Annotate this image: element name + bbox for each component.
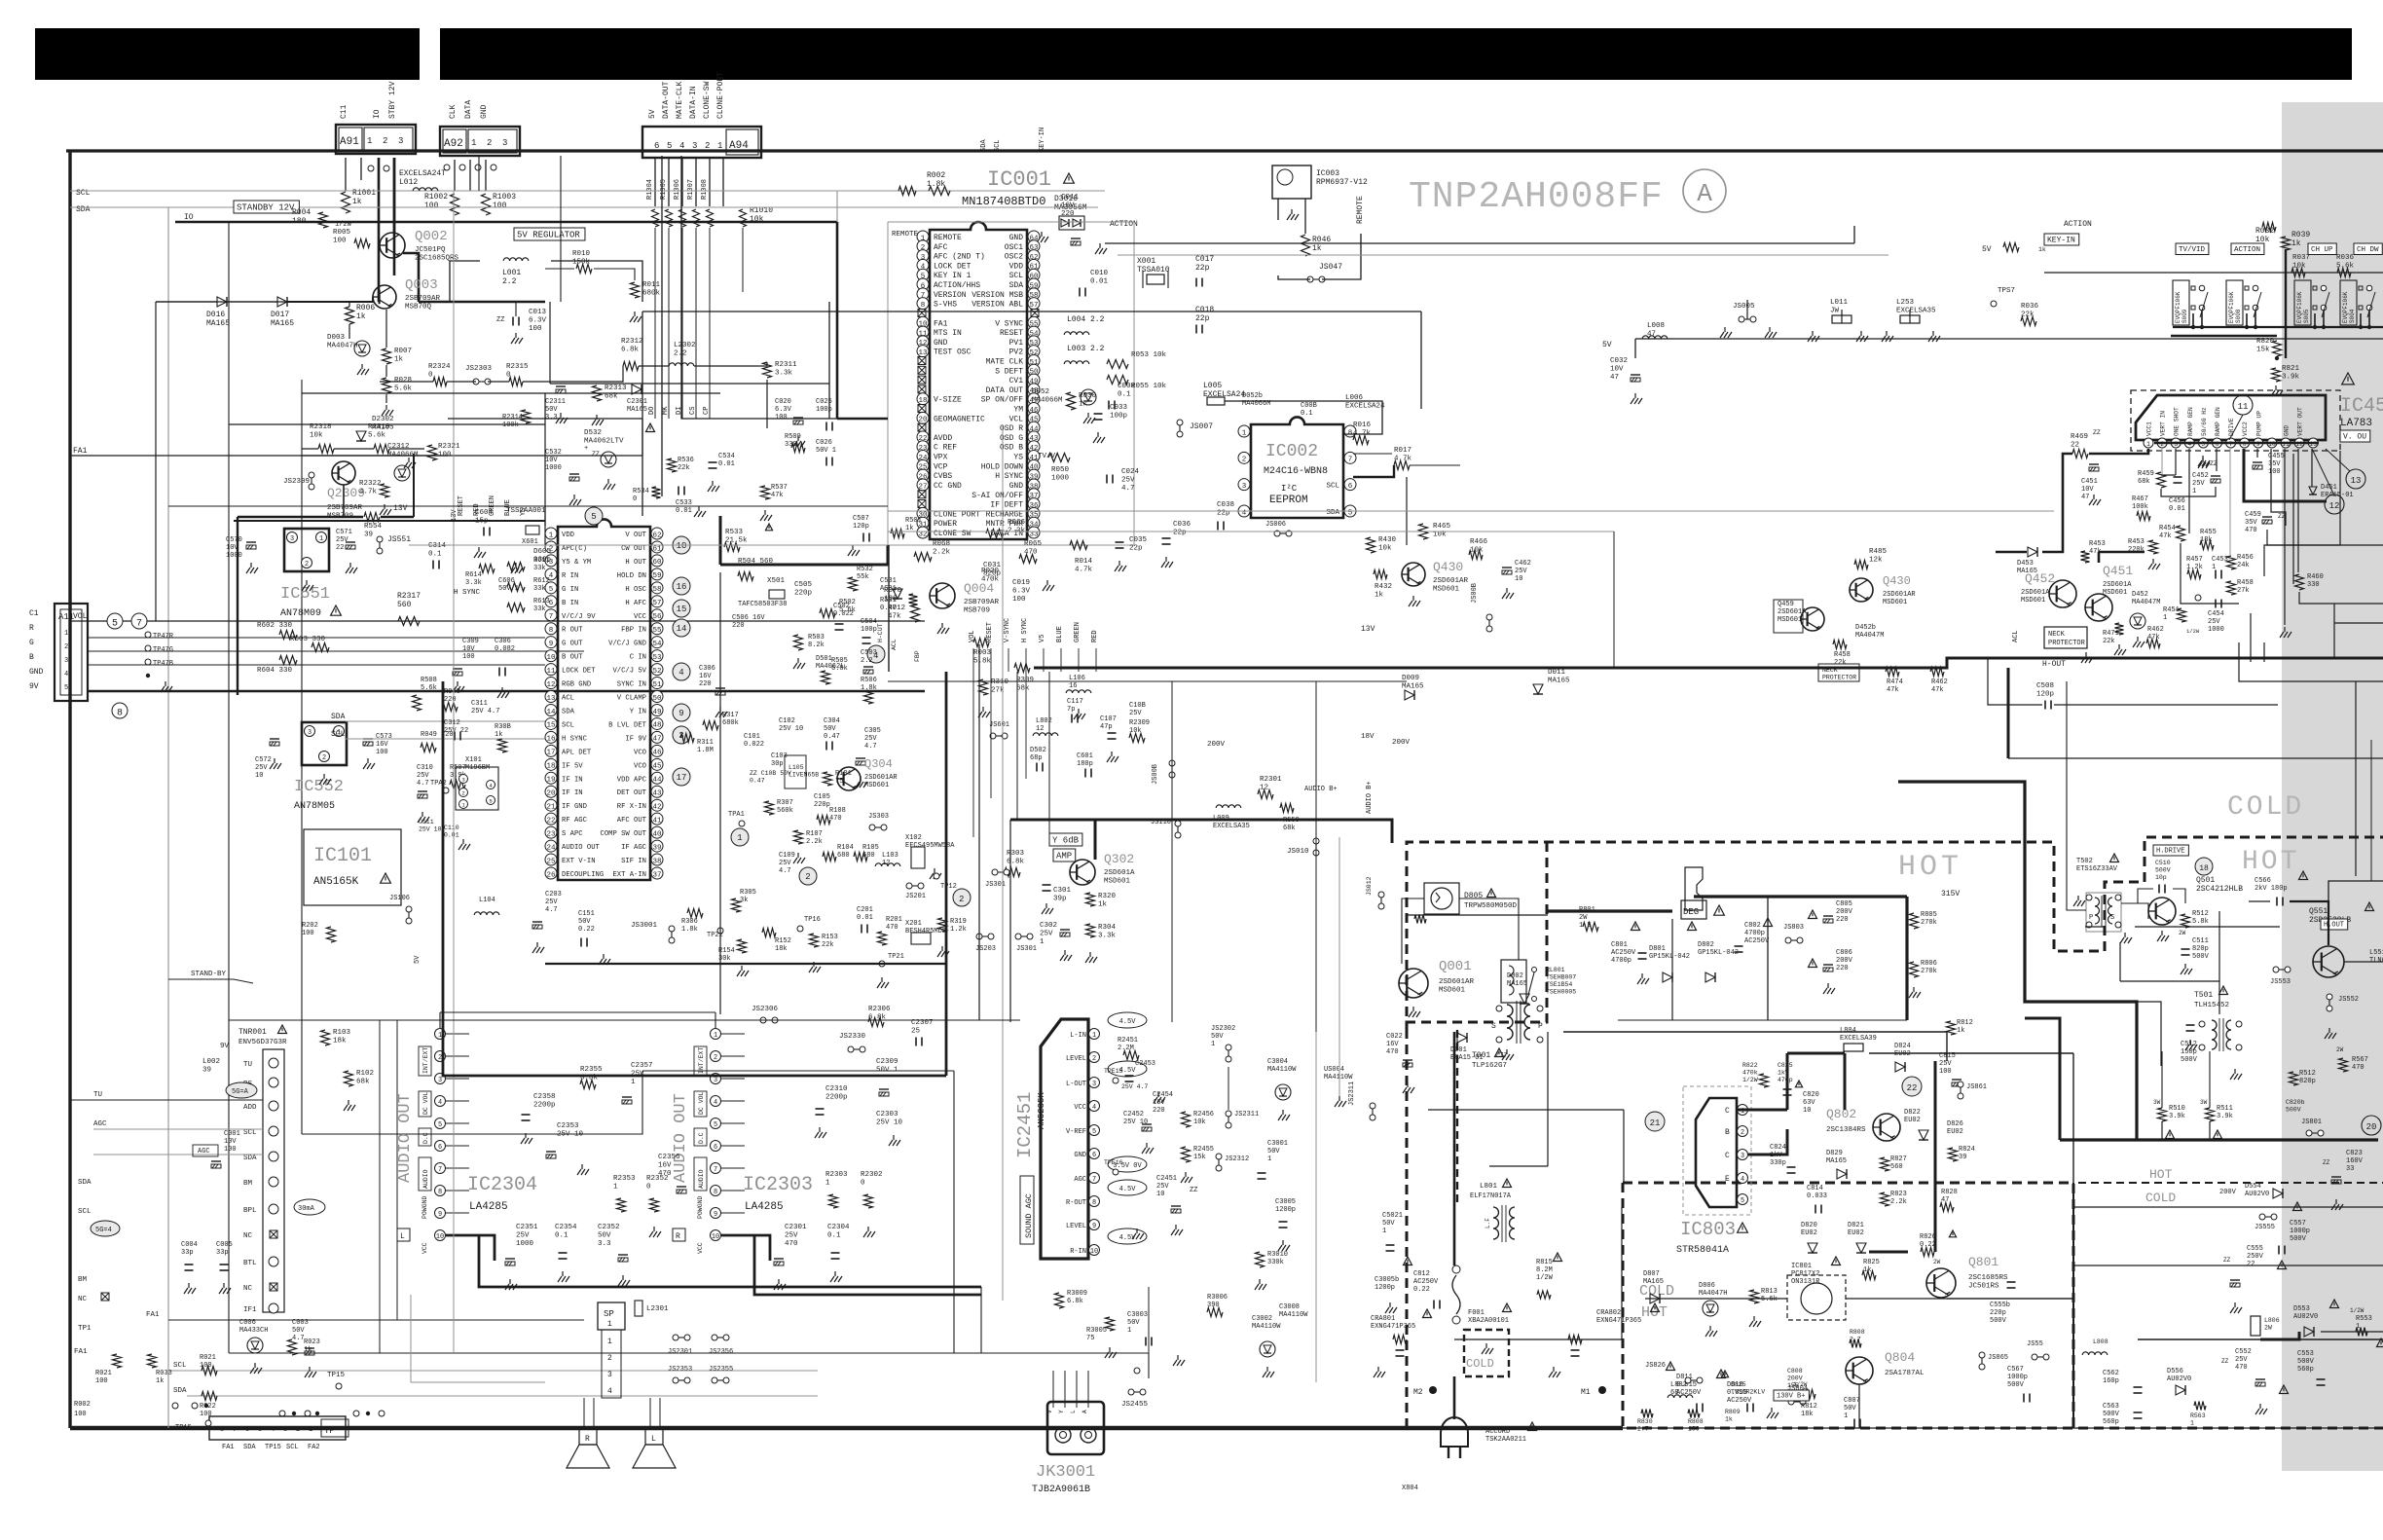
svg-text:EVQPF106K: EVQPF106K — [2296, 291, 2303, 323]
crystal X501 — [769, 590, 785, 599]
net label 200V — [1207, 741, 1226, 749]
dashed boundary primary left — [1407, 842, 1547, 1428]
pin label 46 IC101 jungle — [634, 749, 646, 756]
svg-text:1: 1 — [613, 1184, 618, 1192]
pin label 23 IC001 — [934, 444, 957, 453]
value R153 — [822, 934, 838, 949]
value R532 — [857, 566, 873, 581]
ref Q430 — [1433, 560, 1463, 574]
svg-text:BPL: BPL — [243, 1207, 257, 1215]
wire sda t — [93, 1154, 263, 1155]
wire — [2292, 454, 2294, 584]
svg-text:COLD: COLD — [2227, 792, 2304, 823]
svg-text:C604: C604 — [475, 509, 494, 517]
ground — [937, 623, 949, 634]
svg-text:100: 100 — [2268, 468, 2281, 476]
pin label 20 IC001 — [934, 415, 985, 423]
value Q430 — [1433, 577, 1469, 594]
svg-text:R2315: R2315 — [506, 363, 529, 371]
svg-text:AVDD: AVDD — [934, 434, 952, 443]
svg-text:2.2: 2.2 — [502, 277, 517, 286]
svg-text:5V: 5V — [648, 109, 657, 119]
pin 1 IC552 — [334, 726, 345, 738]
svg-text:62: 62 — [652, 532, 661, 539]
wire — [411, 1381, 545, 1383]
svg-text:TPS7: TPS7 — [1998, 287, 2015, 295]
pin 24 IC001 — [917, 451, 929, 462]
pin 38 IC101 jungle — [651, 854, 663, 865]
svg-text:R465: R465 — [1433, 523, 1451, 531]
svg-text:C017: C017 — [1195, 255, 1214, 264]
svg-text:JS201: JS201 — [905, 893, 926, 900]
value R537 — [771, 484, 788, 499]
pin label 4 IC101 jungle — [562, 572, 578, 580]
svg-text:MSD601: MSD601 — [1104, 878, 1131, 886]
pin label 22 IC101 jungle — [562, 817, 588, 825]
pin label SCL TP — [286, 1444, 299, 1451]
wire opto in — [1645, 1298, 1787, 1300]
wire 13V reg — [234, 520, 545, 522]
svg-text:P: P — [1538, 1022, 1543, 1031]
svg-text:TPE16: TPE16 — [1104, 1159, 1123, 1166]
svg-text:50: 50 — [652, 695, 662, 703]
svg-text:SCL: SCL — [243, 1129, 257, 1137]
pin 4 IC101 jungle — [545, 568, 557, 580]
svg-text:AFC OUT: AFC OUT — [617, 817, 647, 825]
value R003 — [973, 649, 992, 666]
value JS012 — [1366, 876, 1373, 896]
svg-text:R612: R612 — [533, 577, 550, 585]
svg-text:S DEFT: S DEFT — [995, 367, 1023, 376]
pin 41 IC001 — [1028, 451, 1040, 462]
switch S008 — [2226, 280, 2261, 327]
svg-text:C806: C806 — [1836, 949, 1852, 957]
net label B — [29, 653, 34, 662]
svg-text:V: V — [1046, 1410, 1053, 1413]
svg-text:15k: 15k — [2256, 347, 2270, 354]
value R485 — [1869, 548, 1888, 565]
value IC101 — [313, 876, 359, 888]
resistor R2353 — [617, 1198, 626, 1212]
svg-text:1: 1 — [471, 138, 476, 148]
value T001 — [1472, 1051, 1490, 1060]
pin label 50 IC101 jungle — [617, 695, 646, 703]
svg-text:DC VOL: DC VOL — [422, 1091, 429, 1115]
svg-text:NECK: NECK — [2048, 631, 2066, 639]
svg-text:C504: C504 — [861, 618, 877, 626]
svg-text:D016: D016 — [206, 311, 225, 319]
jumper JS861 — [1958, 1082, 1963, 1099]
svg-text:TP47R: TP47R — [153, 633, 174, 641]
svg-text:50V: 50V — [824, 725, 836, 733]
svg-text:AN5165K: AN5165K — [313, 876, 359, 888]
ref IC2451 — [1014, 1092, 1036, 1158]
ground — [497, 687, 509, 698]
wire — [1613, 532, 1615, 668]
svg-text:R533: R533 — [725, 529, 744, 536]
svg-text:R2355: R2355 — [580, 1066, 603, 1074]
value R603 — [290, 636, 326, 643]
svg-text:R103: R103 — [333, 1029, 351, 1037]
capacitor C312 — [455, 732, 460, 741]
svg-text:1: 1 — [309, 1426, 312, 1434]
svg-text:SDA: SDA — [243, 1444, 256, 1451]
svg-text:R2314: R2314 — [502, 414, 523, 422]
svg-text:5G=A: 5G=A — [232, 1088, 249, 1096]
pin 45 IC001 — [1028, 412, 1040, 423]
svg-text:D821: D821 — [1848, 1222, 1864, 1229]
pin label 46 IC001 — [1013, 406, 1023, 415]
svg-text:HOT: HOT — [1898, 851, 1962, 884]
value R30B — [495, 723, 511, 739]
jumper JS2353 — [673, 1377, 690, 1383]
value R808b — [1688, 1418, 1704, 1433]
svg-text:0.01: 0.01 — [676, 507, 692, 515]
value JS801 — [2301, 1118, 2322, 1126]
svg-text:180: 180 — [292, 217, 307, 226]
svg-text:0.01: 0.01 — [857, 914, 873, 922]
svg-text:IC803: IC803 — [1680, 1219, 1736, 1240]
wire ic001 drop — [990, 648, 992, 672]
svg-text:2.2M: 2.2M — [1118, 1045, 1134, 1052]
svg-text:C532: C532 — [545, 449, 562, 457]
svg-text:D553: D553 — [2293, 1305, 2310, 1313]
wire Y signal thick — [1010, 820, 1095, 860]
value R006 — [356, 304, 375, 321]
svg-text:EXNG471P365: EXNG471P365 — [1371, 1323, 1415, 1331]
pin label NC TNR001 — [243, 1285, 253, 1293]
pin label 23 IC101 jungle — [562, 830, 583, 838]
resistor R306 — [687, 909, 703, 918]
resistor R822 — [1760, 1074, 1769, 1087]
svg-text:220p: 220p — [1990, 1309, 2006, 1317]
capacitor C459 — [2262, 517, 2272, 524]
svg-text:D605: D605 — [533, 548, 552, 556]
svg-text:L808: L808 — [2093, 1338, 2108, 1345]
pin 58 IC101 jungle — [651, 582, 663, 594]
svg-text:R806: R806 — [1921, 960, 1937, 968]
ground — [2331, 1199, 2343, 1210]
svg-text:3: 3 — [692, 141, 697, 151]
label M1 — [1581, 1388, 1591, 1397]
diode D009 — [1405, 690, 1414, 700]
resistor CRA801 — [1393, 1336, 1407, 1344]
ground — [556, 413, 568, 423]
svg-text:ON3131R: ON3131R — [1791, 1278, 1820, 1286]
value C005 — [216, 1241, 233, 1257]
resistor R2321 — [428, 445, 437, 460]
pin 42 IC101 jungle — [651, 799, 663, 811]
wire pin 8 IC2304 — [446, 1190, 469, 1192]
svg-text:120p: 120p — [2036, 691, 2054, 699]
value R458b — [1834, 651, 1851, 667]
svg-text:1: 1 — [1382, 1228, 1386, 1235]
wire — [2209, 1051, 2211, 1108]
wire vertical 1006 — [978, 644, 980, 1020]
svg-text:IF AGC: IF AGC — [621, 844, 647, 852]
svg-text:200V: 200V — [1836, 957, 1853, 965]
net label FA1 c — [74, 1348, 88, 1356]
value R053 — [1131, 351, 1167, 359]
label P T502 — [2089, 914, 2093, 922]
svg-text:0.1: 0.1 — [827, 1232, 841, 1240]
pin 7 IC45x — [2226, 438, 2236, 448]
wire — [1428, 1109, 1624, 1111]
value D807 — [1643, 1270, 1664, 1286]
svg-text:18: 18 — [2199, 864, 2209, 873]
pin label 13 IC101 jungle — [562, 695, 574, 703]
svg-text:10V: 10V — [545, 457, 558, 464]
svg-text:R462: R462 — [2147, 626, 2164, 634]
net label NC — [78, 1296, 88, 1303]
pin label 2 IC001 — [934, 243, 948, 252]
svg-text:R1008: R1008 — [701, 179, 709, 200]
wire — [1228, 1067, 1229, 1110]
wire — [551, 261, 642, 302]
svg-text:C3005b: C3005b — [1375, 1276, 1399, 1284]
ground — [618, 1275, 630, 1286]
net label R002 — [74, 1401, 91, 1409]
pin label SDA TNR001 — [243, 1155, 257, 1162]
wire t502 feed — [2067, 681, 2086, 910]
relay RL801 — [1501, 960, 1537, 1003]
svg-text:R002: R002 — [927, 171, 945, 180]
svg-text:ACTION: ACTION — [2234, 246, 2260, 254]
ground — [505, 1279, 517, 1290]
svg-text:BLUE: BLUE — [1056, 626, 1064, 642]
jumper JS110 — [1175, 821, 1181, 838]
wire pin 9 IC2304 — [446, 1212, 469, 1214]
capacitor C001 — [211, 1161, 221, 1168]
transistor Q451 — [2085, 594, 2112, 621]
capacitor C452i — [2174, 477, 2182, 483]
capacitor C502 — [835, 624, 844, 630]
value R202 — [302, 922, 318, 937]
switch S004 — [2340, 280, 2375, 327]
frame left border — [68, 151, 71, 1428]
svg-text:IF GND: IF GND — [562, 803, 587, 811]
svg-text:4: 4 — [1242, 509, 1247, 517]
svg-text:8: 8 — [220, 1426, 224, 1434]
svg-text:50V: 50V — [1267, 1148, 1280, 1155]
pin label 48 IC101 jungle — [608, 721, 647, 729]
resistor R036t — [2021, 317, 2036, 326]
pin label 12 IC101 jungle — [562, 681, 591, 689]
capacitor C511 — [2181, 949, 2190, 955]
value C573 — [376, 733, 392, 756]
value C003 — [292, 1319, 309, 1342]
label Y 6dB AMP — [1049, 833, 1082, 846]
svg-text:10: 10 — [1803, 1107, 1811, 1115]
svg-text:25V 4.7: 25V 4.7 — [471, 708, 499, 715]
value R459 — [2138, 470, 2154, 486]
svg-text:VCC1: VCC1 — [2146, 422, 2153, 436]
value R3006 — [1207, 1294, 1228, 1309]
svg-text:2.2k: 2.2k — [1890, 1198, 1907, 1206]
capacitor C2453 — [1125, 1076, 1134, 1082]
svg-text:L804: L804 — [1840, 1027, 1856, 1035]
svg-text:MA165: MA165 — [271, 319, 294, 328]
value T501 — [2194, 991, 2213, 1000]
svg-text:C2310: C2310 — [825, 1085, 848, 1093]
capacitor C010 — [1080, 288, 1085, 297]
svg-text:JS601: JS601 — [989, 721, 1009, 729]
value R559 — [1283, 817, 1300, 832]
resistor R805 — [1910, 913, 1919, 929]
svg-text:IO: IO — [373, 109, 382, 119]
wire A94 drop DI — [681, 228, 683, 419]
ic IC002 body — [1251, 417, 1343, 518]
ground — [344, 1100, 355, 1111]
value R453b — [2089, 540, 2106, 556]
svg-text:2: 2 — [1092, 1055, 1096, 1063]
wire — [715, 1012, 716, 1028]
wire 160v rail — [1563, 1031, 1947, 1033]
wire pin 1 IC2304 — [446, 1033, 469, 1035]
value R2315 — [506, 363, 529, 380]
svg-text:IC2303: IC2303 — [743, 1174, 813, 1196]
svg-text:EXCELSA35: EXCELSA35 — [1896, 308, 1936, 315]
pin 3 IC002 — [1238, 479, 1250, 491]
svg-text:R458: R458 — [1834, 651, 1851, 659]
capacitor C306 — [499, 668, 505, 677]
svg-text:A92: A92 — [444, 138, 463, 150]
ground — [246, 563, 258, 573]
svg-text:1k: 1k — [1098, 901, 1108, 909]
svg-text:16: 16 — [1069, 682, 1077, 690]
value T502 — [2076, 858, 2118, 873]
capacitor C025 — [826, 422, 832, 431]
dashed boundary secondary top — [1623, 1183, 2073, 1428]
svg-text:MA165: MA165 — [627, 406, 647, 414]
resistor R469 — [2072, 450, 2088, 458]
svg-text:1: 1 — [2146, 441, 2150, 448]
value R3010 — [1267, 1251, 1288, 1266]
value C2303 — [876, 1111, 903, 1127]
value C459 — [2245, 511, 2261, 534]
value JS2353 — [668, 1366, 692, 1374]
pin 53 IC101 jungle — [651, 650, 663, 662]
svg-text:X101: X101 — [465, 756, 482, 764]
ground — [599, 954, 610, 965]
svg-text:39: 39 — [202, 1067, 211, 1075]
svg-text:12: 12 — [1260, 785, 1268, 792]
resistor R108 — [817, 816, 830, 825]
svg-text:0.22: 0.22 — [578, 926, 595, 934]
svg-text:SCL: SCL — [331, 730, 346, 739]
svg-text:H SYNC: H SYNC — [995, 472, 1023, 481]
resistor R046 — [1301, 235, 1310, 256]
svg-text:4.7: 4.7 — [864, 743, 877, 751]
svg-text:C553: C553 — [2297, 1350, 2314, 1358]
svg-text:10k: 10k — [2292, 263, 2306, 271]
svg-text:STAND-BY: STAND-BY — [191, 971, 227, 978]
ground — [774, 1279, 786, 1290]
svg-text:OSD R: OSD R — [1000, 424, 1023, 433]
value D556 — [2167, 1368, 2191, 1383]
wire 13v rail — [2008, 757, 2383, 759]
svg-text:L005: L005 — [1203, 382, 1222, 390]
svg-text:R033: R033 — [156, 1370, 172, 1377]
label TPE15 — [1104, 1068, 1123, 1075]
svg-text:Y IN: Y IN — [630, 708, 646, 715]
resistor R1007 — [693, 209, 700, 227]
svg-text:JS861: JS861 — [1966, 1083, 1987, 1091]
wire — [2120, 980, 2219, 982]
capacitor C453 — [2216, 570, 2221, 579]
wire thick to H-OUT — [1363, 658, 1988, 668]
ground — [604, 479, 615, 490]
svg-text:25V 10: 25V 10 — [1123, 1118, 1148, 1126]
value R105 — [862, 844, 879, 860]
svg-text:47k: 47k — [771, 492, 784, 499]
svg-text:R007: R007 — [394, 348, 412, 355]
svg-text:R014: R014 — [1075, 558, 1093, 566]
net label AUDIO B+ — [1366, 781, 1374, 814]
wire pin 7 IC2304 — [446, 1167, 469, 1169]
label TP22 — [707, 932, 723, 939]
pin 63 IC001 — [1028, 240, 1040, 252]
pin label 1 IC001 — [934, 234, 962, 242]
resistor R554x — [2194, 1402, 2206, 1411]
value R826 — [1920, 1233, 1936, 1249]
value R070 — [884, 587, 902, 604]
inductor L806 — [2251, 1316, 2260, 1336]
value IC45x — [2340, 418, 2372, 429]
svg-text:C572: C572 — [255, 756, 272, 764]
pin 6 IC2451 — [1089, 1149, 1100, 1160]
svg-text:JS3001: JS3001 — [631, 922, 658, 930]
svg-text:R471: R471 — [2103, 630, 2119, 638]
svg-text:6: 6 — [1348, 483, 1353, 491]
svg-text:C013: C013 — [529, 309, 547, 316]
value C801 — [1611, 941, 1636, 965]
svg-text:0: 0 — [861, 1180, 865, 1188]
ground — [184, 1283, 196, 1294]
ground — [357, 364, 369, 375]
svg-text:L004 2.2: L004 2.2 — [1067, 315, 1105, 324]
value R505 — [831, 657, 848, 673]
svg-text:250V: 250V — [2247, 1253, 2264, 1261]
wire — [722, 158, 724, 206]
ground — [1093, 432, 1105, 443]
svg-text:MA4062LTV: MA4062LTV — [584, 438, 624, 446]
svg-text:500V: 500V — [2286, 1107, 2301, 1114]
callout 5G=A — [226, 1082, 257, 1098]
svg-text:0.01: 0.01 — [718, 460, 735, 468]
capacitor C2307 — [916, 1038, 922, 1046]
svg-text:MSD601: MSD601 — [1433, 586, 1460, 594]
svg-text:1.8k: 1.8k — [861, 684, 877, 692]
wire — [1623, 1110, 1625, 1183]
svg-text:160V: 160V — [2346, 1157, 2364, 1165]
value D820 — [1801, 1222, 1817, 1237]
value C601 — [1077, 752, 1093, 768]
pin label 10 IC101 jungle — [562, 654, 583, 662]
value R510 — [2169, 1105, 2185, 1120]
svg-text:37: 37 — [652, 871, 661, 879]
pin 34 IC001 — [1028, 517, 1040, 529]
resistor R826 — [1921, 1248, 1934, 1257]
pin jk 3 — [1082, 1410, 1088, 1413]
svg-text:RF X-IN: RF X-IN — [617, 803, 646, 811]
pin label 2 IC101 jungle — [562, 545, 587, 553]
pin label 60 IC101 jungle — [625, 559, 646, 567]
svg-text:R532: R532 — [857, 566, 873, 573]
callout 2 — [953, 889, 971, 906]
svg-text:39: 39 — [652, 844, 661, 852]
svg-text:L011: L011 — [1830, 299, 1849, 307]
